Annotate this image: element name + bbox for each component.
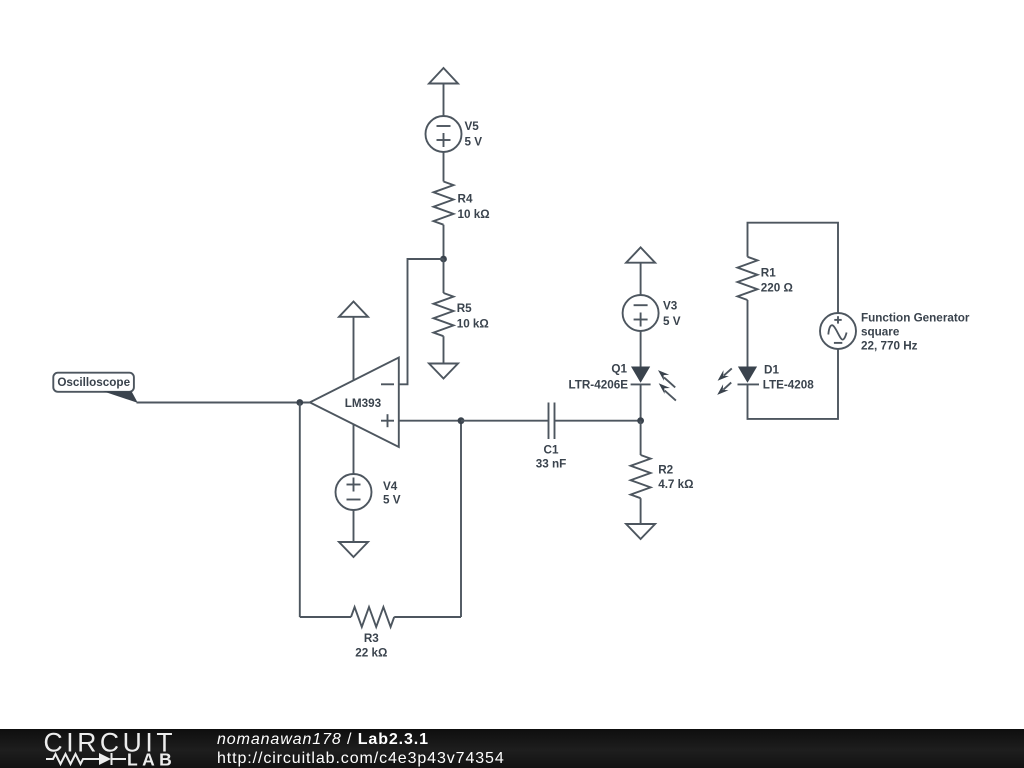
svg-text:5 V: 5 V [383,494,401,507]
wire junction to R5 [443,259,445,293]
svg-text:LAB: LAB [127,750,176,768]
resistor R3 [351,607,394,627]
svg-text:V5: V5 [465,120,480,133]
label R1 220 Ohm [761,267,793,295]
wire op-amp power rail [353,317,355,475]
svg-text:R3: R3 [364,632,379,645]
label LM393 [345,397,382,410]
node junction R4/R5 [440,256,447,263]
label R3 22 kOhm [355,632,387,660]
wire Q1 to junction [640,384,642,420]
wire R3 right segment [394,616,461,618]
op-amp U1 LM393 [310,358,399,448]
label Q1 LTR-4206E [568,362,628,391]
CircuitLab logo [40,729,190,768]
voltage source V5 [426,116,462,152]
footer text [217,731,505,768]
label V5 5 V [465,120,483,149]
wire V3 to Q1 [640,330,642,367]
label C1 33 nF [536,444,567,471]
wire output junction down to R3 [299,403,301,618]
svg-text:LTE-4208: LTE-4208 [763,378,815,391]
ground below V4 [339,542,368,557]
svg-text:Q1: Q1 [611,362,627,375]
resistor R1 [738,257,758,300]
voltage source V4 [336,474,372,510]
voltage source V3 [623,295,659,331]
resistor R2 [631,455,651,498]
label Oscilloscope text [57,376,130,389]
svg-text:V3: V3 [663,299,678,312]
wire V4 to ground [353,510,355,543]
ground below R2 [626,524,655,539]
wire junction to R2 [640,421,642,455]
wire R4 to junction [443,225,445,259]
svg-text:R1: R1 [761,267,776,280]
power flag above V3 [626,247,655,262]
label R5 10 kOhm [457,302,489,330]
svg-text:square: square [861,325,900,338]
function generator source [820,313,856,349]
svg-text:LM393: LM393 [345,397,382,410]
svg-text:R5: R5 [457,302,472,315]
Q1 light arrow 1 [658,370,675,387]
svg-text:Oscilloscope: Oscilloscope [57,376,130,389]
op-amp non-inverting input symbol [381,414,394,427]
LED D1 LTE-4208 [738,367,760,385]
svg-text:Function Generator: Function Generator [861,311,970,324]
wire junction to C1 [461,420,549,422]
wire R3 left segment [300,616,351,618]
resistor R4 [434,182,454,225]
svg-text:V4: V4 [383,480,398,493]
resistor R5 [434,293,454,336]
ground below R5 [429,364,458,379]
svg-text:22, 770 Hz: 22, 770 Hz [861,339,918,352]
wire V5 to R4 [443,152,445,182]
svg-text:220 Ω: 220 Ω [761,282,793,295]
svg-text:R4: R4 [458,193,473,206]
wire power flag to V3 [640,263,642,295]
wire oscilloscope to op-amp output [137,402,310,404]
wire R5 to ground [443,336,445,363]
node C1/Q1/R2 junction [637,417,644,424]
wire right loop top [748,223,839,313]
svg-text:R2: R2 [658,464,673,477]
op-amp inverting input symbol [381,383,394,385]
node plus input junction [458,417,465,424]
D1 light arrow 1 [718,368,732,380]
label R2 4.7 kOhm [658,464,693,492]
wire D1 to loop bottom [748,349,839,419]
svg-text:22 kΩ: 22 kΩ [355,647,387,660]
phototransistor Q1 LTR-4206E [631,367,651,385]
label Oscilloscope flag [53,373,138,403]
label V4 5 V [383,480,401,507]
svg-text:33 nF: 33 nF [536,458,567,471]
svg-text:10 kΩ: 10 kΩ [457,317,489,330]
svg-text:5 V: 5 V [663,315,681,328]
svg-text:5 V: 5 V [465,136,483,149]
capacitor C1 [549,403,555,440]
footer bar [0,729,1024,768]
svg-text:4.7 kΩ: 4.7 kΩ [658,478,693,491]
svg-text:LTR-4206E: LTR-4206E [568,379,628,392]
svg-text:D1: D1 [764,363,779,376]
wire R3 up to plus junction [460,421,462,617]
wire junction to op-amp inverting input [399,259,444,384]
wire R2 to ground [640,498,642,524]
wire power flag to V5 [443,84,445,117]
svg-text:10 kΩ: 10 kΩ [458,208,490,221]
wire C1 to R2 junction [555,420,641,422]
Q1 light arrow 2 [659,383,676,400]
label V3 5 V [663,299,681,328]
wire op-amp plus input to junction [399,420,461,422]
label R4 10 kOhm [458,193,490,222]
label Function Generator square 22, 770 Hz [861,311,970,352]
label D1 LTE-4208 [763,363,815,391]
wire R1 to D1 [747,300,749,367]
power flag above op-amp [339,302,368,317]
node op-amp output junction [296,399,303,406]
power flag above V5 [429,68,458,84]
D1 light arrow 2 [717,383,731,395]
svg-text:C1: C1 [544,444,559,457]
